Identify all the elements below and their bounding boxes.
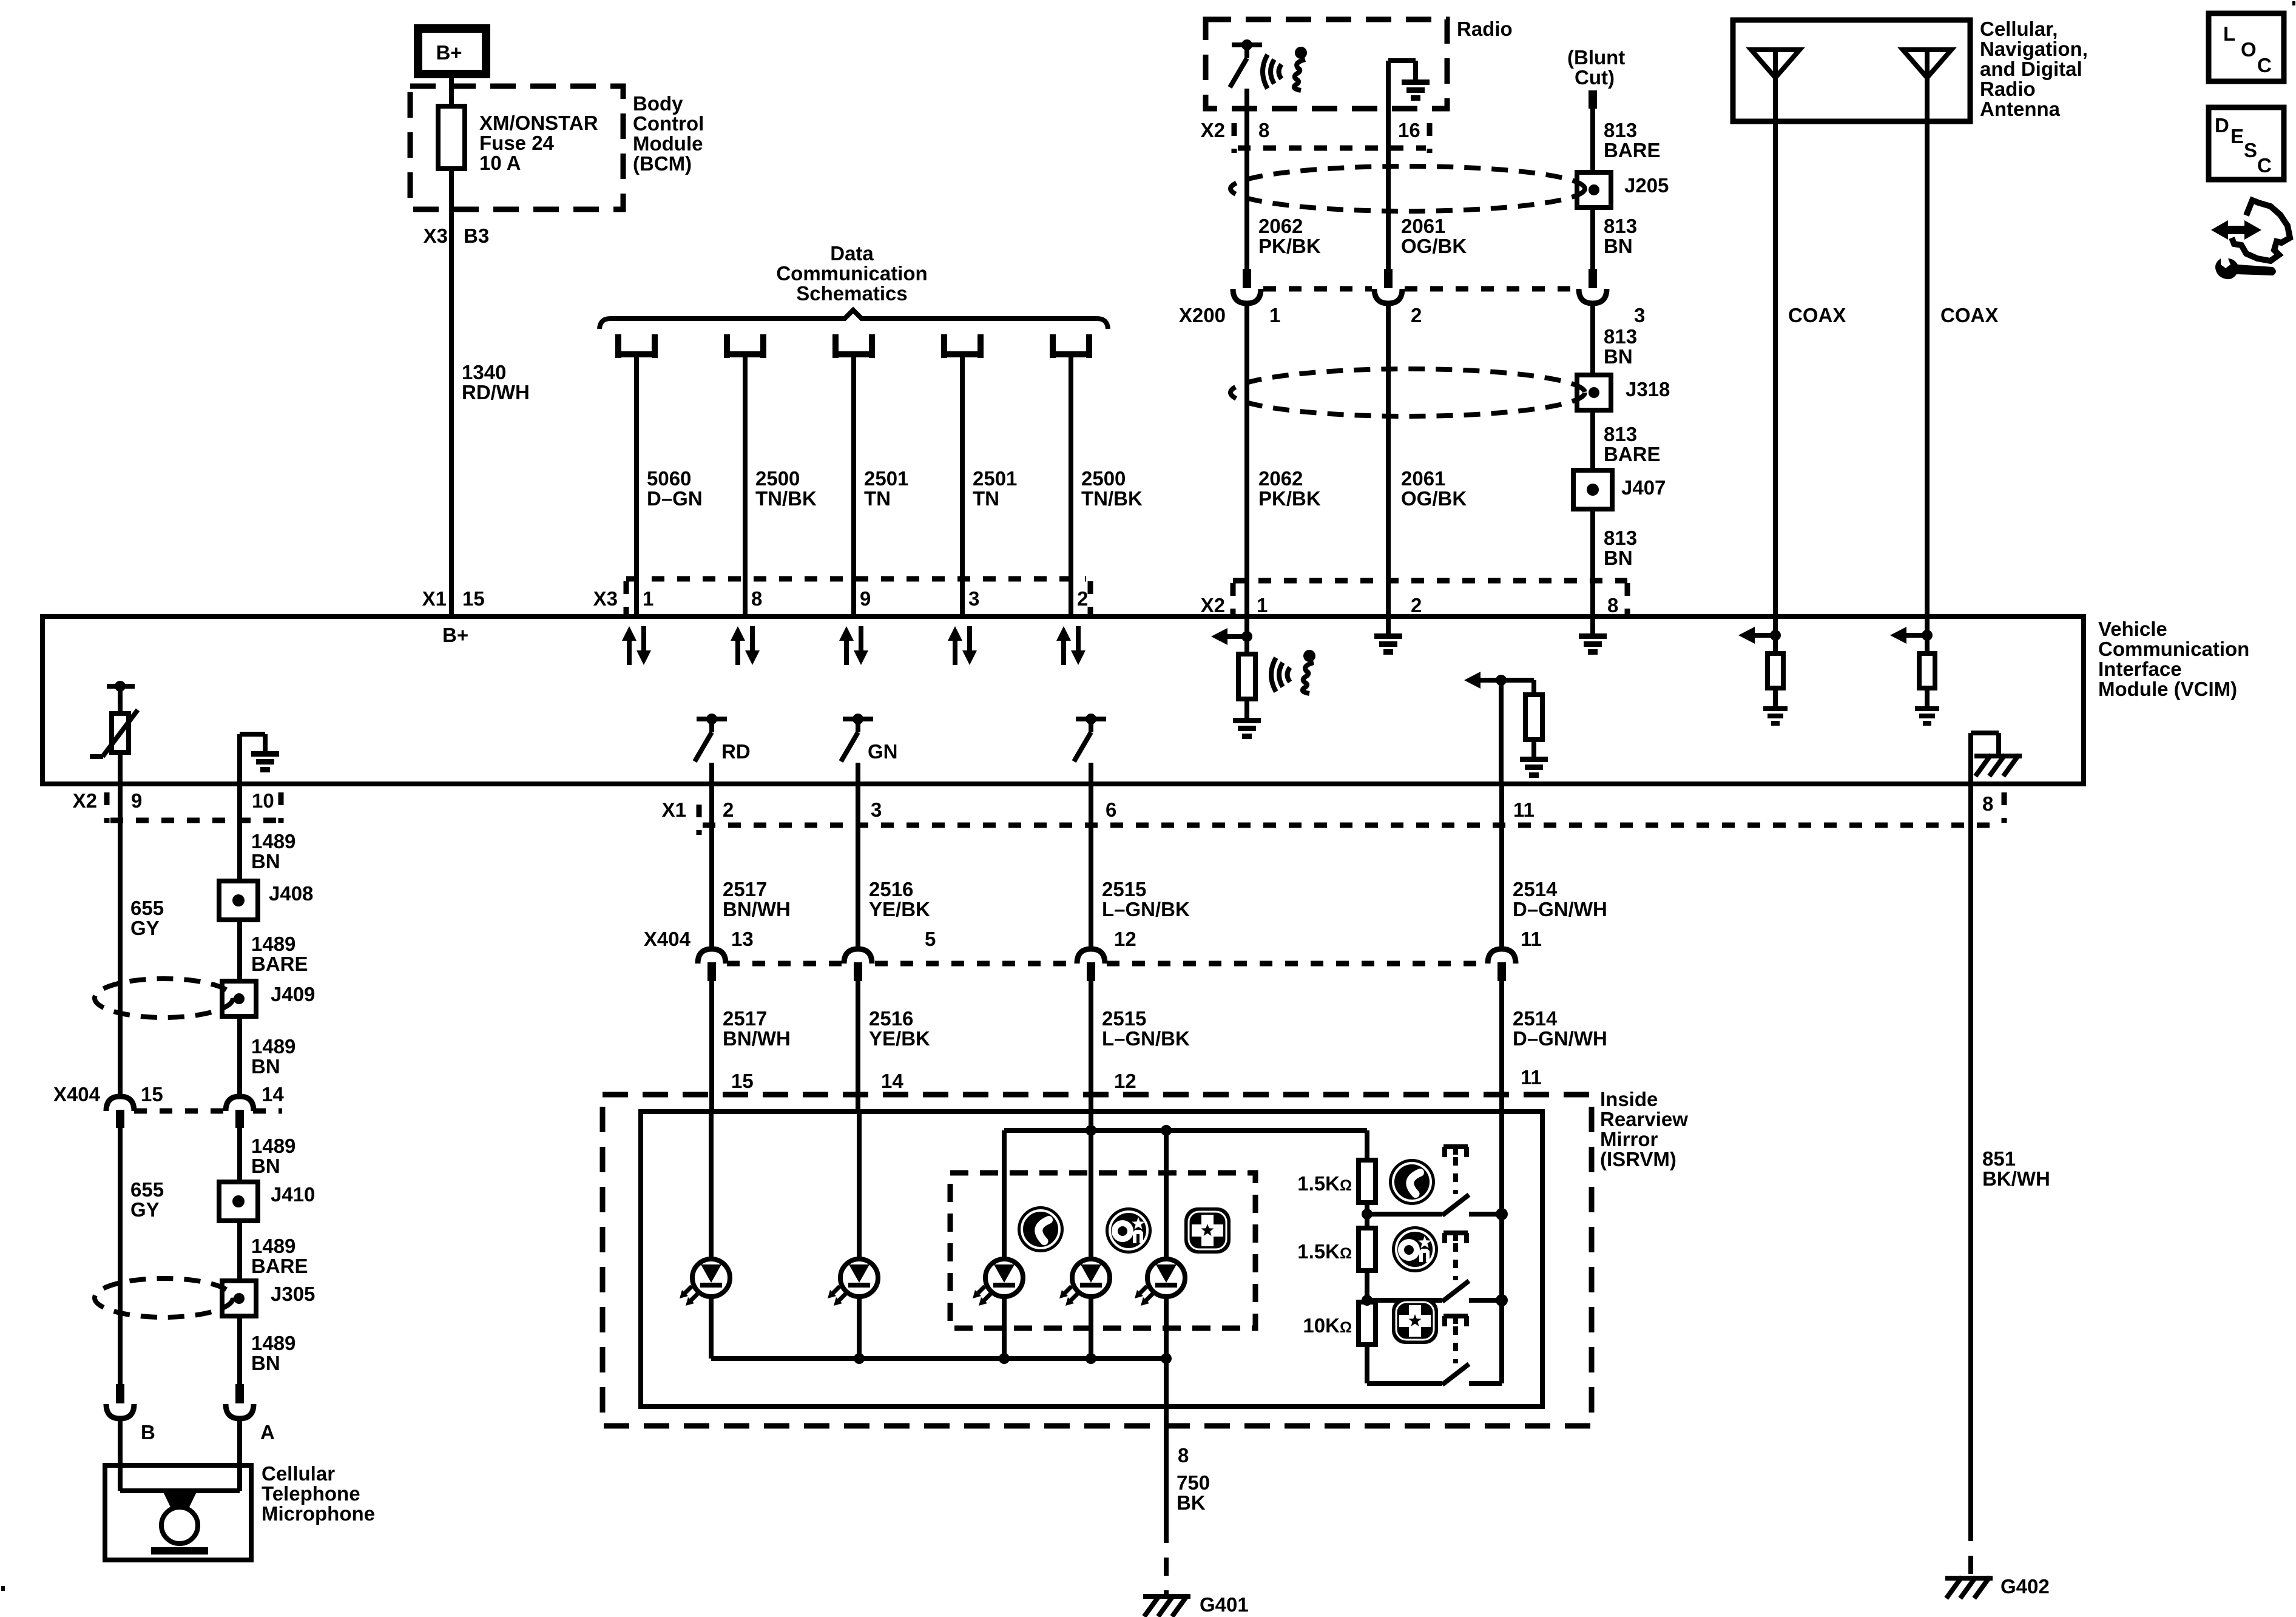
svg-text:Telephone: Telephone — [262, 1482, 360, 1505]
fuse XM/ONSTAR Fuse 24 10A — [438, 106, 598, 174]
LED 2 — [828, 1259, 878, 1306]
connector X404 mid labels — [644, 928, 1542, 964]
wire 655 GY (upper) — [120, 784, 164, 1097]
terminal data-comm 2 — [727, 334, 763, 358]
wire 2500 TN/BK — [745, 354, 817, 616]
svg-text:1489: 1489 — [251, 1035, 295, 1058]
serial data arrows 5 — [1056, 626, 1086, 665]
svg-text:15: 15 — [141, 1083, 163, 1106]
connector X1 bottom labels — [662, 792, 2004, 835]
VCIM coax termination x2926 — [1738, 619, 1788, 726]
Cellular Telephone Microphone box — [105, 1465, 251, 1560]
svg-text:J409: J409 — [271, 983, 315, 1005]
svg-text:RD: RD — [721, 740, 751, 763]
terminal data-comm 5 — [1053, 334, 1089, 358]
svg-text:813: 813 — [1604, 215, 1637, 237]
wire led to bus — [857, 1297, 862, 1359]
svg-text:11: 11 — [1513, 798, 1535, 821]
connector arc (X200) — [1579, 289, 1607, 303]
svg-text:L–GN/BK: L–GN/BK — [1102, 1027, 1190, 1050]
svg-text:X3: X3 — [424, 224, 448, 247]
wire led to bus — [709, 1297, 714, 1359]
wire 813 BN (X200-3 down) — [1593, 303, 1637, 376]
svg-text:2516: 2516 — [869, 1007, 913, 1030]
svg-text:813: 813 — [1604, 119, 1637, 141]
svg-text:J410: J410 — [271, 1183, 315, 1206]
svg-text:and Digital: and Digital — [1980, 58, 2082, 80]
antenna 1 — [1751, 50, 1800, 121]
twisted pair ellipse (upper) — [1231, 166, 1585, 211]
ISRVM pin labels — [731, 1066, 1542, 1092]
svg-text:3: 3 — [1634, 304, 1645, 326]
Radio dashed box — [1206, 19, 1447, 109]
serial data arrows 1 — [622, 626, 651, 665]
svg-text:851: 851 — [1982, 1147, 2016, 1170]
switch emergency — [1367, 1316, 1502, 1385]
twisted pair ellipse left upper — [95, 979, 233, 1018]
svg-text:RD/WH: RD/WH — [462, 381, 530, 403]
svg-text:Control: Control — [633, 112, 704, 135]
svg-text:2517: 2517 — [723, 878, 767, 900]
svg-text:13: 13 — [731, 928, 754, 950]
wire 1489 BN (below X404-14) — [240, 1128, 295, 1181]
wire 813 BN (to VCIM X2-8) — [1593, 509, 1637, 616]
wire 2516 YE/BK lower — [858, 981, 930, 1113]
pin X3 B3 labels — [424, 224, 490, 247]
label Cellular Telephone Microphone — [262, 1462, 375, 1525]
LED 1 (phone green) — [680, 1259, 730, 1306]
svg-text:1: 1 — [1257, 594, 1268, 616]
svg-text:S: S — [2244, 139, 2257, 161]
svg-text:2500: 2500 — [1081, 467, 1126, 490]
svg-text:6: 6 — [1106, 798, 1116, 821]
svg-text:2514: 2514 — [1513, 878, 1558, 900]
svg-text:1489: 1489 — [251, 933, 295, 955]
svg-text:BN: BN — [251, 1055, 280, 1078]
blunt cut wire 813 BARE — [1589, 90, 1661, 172]
svg-text:J407: J407 — [1621, 476, 1666, 499]
wire 1489 BN (pin10) — [240, 784, 295, 881]
svg-text:2061: 2061 — [1401, 467, 1445, 490]
VCIM speak icon — [1271, 650, 1315, 694]
wire 851 BK/WH — [1971, 784, 2050, 1523]
svg-text:2500: 2500 — [755, 467, 800, 490]
connector pin A (mic) — [226, 1384, 275, 1465]
svg-text:X2: X2 — [1201, 119, 1225, 141]
svg-text:O: O — [2241, 38, 2257, 61]
connector X2 bottom-left labels — [73, 789, 281, 823]
svg-text:BN: BN — [1604, 547, 1633, 569]
LED 4 (onstar) — [1059, 1259, 1110, 1306]
svg-text:OG/BK: OG/BK — [1401, 235, 1467, 257]
svg-text:655: 655 — [130, 897, 164, 919]
icon cross big — [1392, 1298, 1438, 1344]
svg-text:OG/BK: OG/BK — [1401, 487, 1467, 510]
VCIM ground below radio pin 2 — [1374, 619, 1402, 655]
svg-text:2062: 2062 — [1258, 215, 1303, 237]
wire 2517 BN/WH upper — [712, 784, 791, 950]
VCIM chassis ground (pin 8 right) — [1971, 733, 2019, 784]
svg-text:TN/BK: TN/BK — [755, 487, 817, 510]
svg-text:5060: 5060 — [647, 467, 691, 490]
connector pin stub (X200) — [1243, 269, 1251, 288]
svg-text:Mirror: Mirror — [1600, 1128, 1658, 1150]
wire 2062 PK/BK (upper) — [1247, 89, 1321, 270]
wire 2516 YE/BK upper — [858, 784, 930, 950]
svg-text:1489: 1489 — [251, 1235, 295, 1257]
svg-text:2: 2 — [1411, 304, 1422, 326]
svg-text:BARE: BARE — [251, 1255, 308, 1277]
blunt cut label — [1567, 46, 1625, 89]
splice J305 — [222, 1281, 315, 1316]
icon phone big — [1389, 1159, 1435, 1205]
svg-text:COAX: COAX — [1788, 304, 1846, 326]
svg-text:Antenna: Antenna — [1980, 98, 2061, 120]
resistor 1.5K (phone) — [1297, 1160, 1376, 1214]
twisted pair ellipse (lower) — [1231, 369, 1585, 416]
svg-text:D–GN: D–GN — [647, 487, 703, 510]
connector pin B (mic) — [106, 1384, 155, 1465]
svg-text:BK: BK — [1177, 1491, 1206, 1514]
serial data arrows 3 — [839, 626, 868, 665]
svg-text:J305: J305 — [271, 1283, 315, 1305]
svg-text:813: 813 — [1604, 527, 1637, 549]
connector X404 left labels — [53, 1083, 284, 1111]
splice J407 — [1573, 470, 1666, 509]
connector X404 arc x1798 — [1077, 949, 1105, 981]
VCIM contact (pin 6) — [1074, 714, 1106, 784]
svg-text:XM/ONSTAR: XM/ONSTAR — [479, 112, 598, 134]
svg-text:(BCM): (BCM) — [633, 152, 692, 175]
svg-text:12: 12 — [1114, 928, 1136, 950]
svg-text:BN: BN — [251, 1352, 280, 1374]
svg-text:8: 8 — [1178, 1444, 1189, 1467]
icon onstar small — [1106, 1207, 1152, 1254]
svg-text:TN: TN — [864, 487, 891, 510]
svg-text:Data: Data — [830, 242, 874, 265]
svg-text:B3: B3 — [464, 224, 489, 247]
radio mic contact symbol — [1230, 39, 1262, 87]
svg-text:813: 813 — [1604, 325, 1637, 348]
splice J410 — [219, 1182, 315, 1221]
svg-text:Radio: Radio — [1457, 18, 1513, 40]
ground G402 — [1948, 1575, 2050, 1598]
splice J408 — [219, 881, 313, 920]
svg-text:BN/WH: BN/WH — [723, 1027, 791, 1050]
antenna box — [1733, 20, 1970, 121]
wire 2061 OG/BK (lower) — [1388, 303, 1467, 616]
wire to LED 2 — [857, 1113, 862, 1259]
svg-text:BARE: BARE — [1604, 443, 1661, 465]
wire 2062 PK/BK (lower) — [1247, 303, 1321, 616]
coax wire 1 — [1775, 121, 1846, 616]
connector X3 dashed row — [593, 579, 1090, 615]
terminal data-comm 1 — [618, 334, 655, 358]
svg-text:TN/BK: TN/BK — [1081, 487, 1143, 510]
svg-text:J205: J205 — [1624, 174, 1669, 197]
svg-text:8: 8 — [1607, 594, 1618, 616]
svg-text:Cellular,: Cellular, — [1980, 18, 2058, 40]
svg-text:15: 15 — [731, 1070, 754, 1092]
connector X404 left arc x395 — [226, 1096, 254, 1128]
svg-text:BN: BN — [1604, 345, 1633, 368]
wire 1489 BN (to mic A) — [240, 1316, 295, 1384]
svg-text:J408: J408 — [269, 882, 313, 905]
label Body Control Module (BCM) — [633, 92, 704, 175]
icon phone small — [1018, 1206, 1064, 1252]
svg-text:3: 3 — [968, 587, 979, 610]
svg-text:2: 2 — [1077, 587, 1088, 610]
wire B+ to fuse — [449, 74, 454, 108]
VCIM internal varistor (mic bias) — [90, 681, 138, 784]
svg-text:X404: X404 — [644, 928, 691, 950]
splice J318 — [1577, 375, 1670, 410]
svg-text:PK/BK: PK/BK — [1258, 487, 1321, 510]
svg-text:1340: 1340 — [462, 361, 506, 383]
LOC box — [2209, 13, 2284, 81]
svg-text:Communication: Communication — [2098, 638, 2249, 660]
wire 851 dashed to G402 — [1968, 1523, 1973, 1576]
antenna 2 — [1903, 50, 1951, 121]
svg-text:2: 2 — [723, 798, 734, 821]
svg-text:Communication: Communication — [776, 262, 927, 285]
VCIM contact GN — [841, 714, 898, 784]
svg-text:1: 1 — [643, 587, 653, 610]
svg-text:G401: G401 — [1200, 1593, 1249, 1616]
wire 2501 TN — [962, 354, 1017, 616]
VCIM box — [42, 616, 2084, 784]
svg-text:14: 14 — [262, 1083, 284, 1106]
wire 750 BK exit — [1166, 1359, 1210, 1525]
svg-text:YE/BK: YE/BK — [869, 1027, 930, 1050]
wire 2515 L&#8211;GN/BK upper — [1091, 784, 1190, 950]
wire 1340 RD/WH — [451, 169, 530, 616]
svg-text:Module: Module — [633, 132, 703, 155]
svg-text:8: 8 — [1258, 119, 1269, 141]
connector pin stub (X200) — [1589, 269, 1597, 288]
svg-text:Rearview: Rearview — [1600, 1108, 1688, 1130]
svg-text:B+: B+ — [436, 41, 462, 64]
svg-text:L–GN/BK: L–GN/BK — [1102, 898, 1190, 920]
wire 2500 TN/BK — [1071, 354, 1143, 616]
label Vehicle Communication Interface Module (VCIM) — [2098, 618, 2249, 700]
svg-text:D–GN/WH: D–GN/WH — [1513, 898, 1607, 920]
service icon (arrow hand wrench) — [2211, 200, 2290, 279]
svg-text:X2: X2 — [73, 789, 97, 812]
svg-text:12: 12 — [1114, 1070, 1136, 1092]
radio speak icon — [1263, 47, 1307, 90]
svg-text:GY: GY — [130, 1198, 160, 1221]
svg-text:BARE: BARE — [1604, 139, 1661, 161]
svg-text:C: C — [2257, 154, 2272, 177]
svg-text:2501: 2501 — [973, 467, 1017, 490]
svg-text:1489: 1489 — [251, 830, 295, 852]
inner dashed box around status LEDs — [950, 1173, 1255, 1328]
svg-text:Module (VCIM): Module (VCIM) — [2098, 678, 2237, 700]
label Inside Rearview Mirror (ISRVM) — [1600, 1088, 1688, 1170]
svg-text:TN: TN — [973, 487, 999, 510]
icon cross small — [1184, 1207, 1231, 1254]
VCIM pin 11 driver arrow and load — [1464, 672, 1548, 784]
svg-text:C: C — [2257, 54, 2272, 76]
wire 2501 TN — [854, 354, 908, 616]
svg-text:1489: 1489 — [251, 1135, 295, 1157]
svg-text:D–GN/WH: D–GN/WH — [1513, 1027, 1607, 1050]
serial data arrows 2 — [731, 626, 760, 665]
svg-text:Body: Body — [633, 92, 683, 115]
svg-text:Fuse 24: Fuse 24 — [479, 132, 555, 154]
connector X404 arc x1173 — [698, 949, 726, 981]
wire led to bus — [1089, 1297, 1093, 1359]
svg-text:2: 2 — [1411, 594, 1422, 616]
coax wire 2 — [1927, 121, 1998, 616]
svg-text:2515: 2515 — [1102, 878, 1146, 900]
svg-text:2514: 2514 — [1513, 1007, 1558, 1030]
connector X404 arc x1414 — [844, 949, 872, 981]
svg-text:10: 10 — [252, 789, 274, 812]
svg-text:8: 8 — [751, 587, 762, 610]
BCM dashed box — [410, 86, 623, 209]
wire 2514 D&#8211;GN/WH lower — [1502, 981, 1607, 1113]
svg-text:1489: 1489 — [251, 1332, 295, 1354]
svg-text:Navigation,: Navigation, — [1980, 38, 2088, 60]
ISRVM dashed box — [603, 1095, 1592, 1426]
icon onstar big — [1392, 1226, 1438, 1272]
svg-text:GN: GN — [868, 740, 898, 763]
VCIM coax termination x3176 — [1890, 619, 1939, 726]
DESC box — [2209, 107, 2284, 180]
svg-text:9: 9 — [860, 587, 871, 610]
resistor 10K (emergency) — [1303, 1302, 1376, 1383]
svg-text:10 A: 10 A — [479, 152, 521, 174]
ISRVM inner box — [641, 1112, 1542, 1406]
LED bottom bus — [711, 1353, 1172, 1364]
icon bus (top) — [1004, 1125, 1367, 1259]
wire 1489 BARE — [240, 920, 308, 981]
stray mark top right — [2292, 1, 2295, 5]
wire 5060 D&#8211;GN — [636, 354, 703, 616]
svg-text:BK/WH: BK/WH — [1982, 1167, 2050, 1190]
wire 1489 BN (to X404-14) — [240, 1016, 295, 1097]
wire led to bus — [1164, 1297, 1169, 1359]
svg-text:B: B — [141, 1421, 155, 1443]
VCIM ground below pin 8 (813) — [1579, 619, 1607, 655]
label Cellular Navigation and Digital Radio Antenna — [1980, 18, 2088, 120]
wire 1489 BARE lower — [240, 1221, 308, 1281]
svg-text:2501: 2501 — [864, 467, 908, 490]
radio ground (pin 16) — [1388, 61, 1430, 148]
wire 2517 BN/WH lower — [712, 981, 791, 1113]
svg-text:BN: BN — [251, 1155, 280, 1177]
connector X404 arc x2475 — [1488, 949, 1516, 981]
connector arc (X200) — [1233, 289, 1261, 303]
svg-text:11: 11 — [1521, 1066, 1542, 1089]
svg-text:X200: X200 — [1179, 304, 1226, 326]
svg-text:Inside: Inside — [1600, 1088, 1658, 1110]
VCIM mic input arrow and load — [1211, 619, 1261, 739]
splice J409 — [222, 981, 315, 1016]
svg-text:9: 9 — [131, 789, 142, 812]
svg-text:YE/BK: YE/BK — [869, 898, 930, 920]
svg-text:X3: X3 — [593, 587, 618, 610]
svg-text:16: 16 — [1398, 119, 1420, 141]
wire 750 BK dashed to G401 — [1164, 1525, 1169, 1595]
svg-text:X1: X1 — [662, 798, 686, 821]
wire led to bus — [1002, 1297, 1007, 1359]
svg-text:L: L — [2223, 22, 2235, 45]
terminal data-comm 3 — [836, 334, 872, 358]
svg-text:5: 5 — [925, 928, 936, 950]
power symbol B+ (battery feed) — [418, 29, 486, 74]
svg-text:COAX: COAX — [1940, 304, 1998, 326]
wire 813 BN (to X200-3) — [1593, 208, 1637, 270]
svg-text:3: 3 — [871, 798, 882, 821]
svg-text:Vehicle: Vehicle — [2098, 618, 2167, 640]
wire 2514 D&#8211;GN/WH upper — [1502, 784, 1607, 950]
terminal data-comm 4 — [944, 334, 981, 358]
svg-text:E: E — [2230, 125, 2244, 147]
label Data Communication Schematics — [776, 242, 927, 305]
connector X200 labels — [1179, 289, 1645, 326]
svg-text:14: 14 — [881, 1070, 903, 1092]
svg-text:PK/BK: PK/BK — [1258, 235, 1321, 257]
svg-text:Cut): Cut) — [1575, 66, 1615, 89]
svg-text:D: D — [2215, 114, 2229, 137]
serial data arrows 4 — [948, 626, 977, 665]
svg-text:Interface: Interface — [2098, 658, 2182, 680]
splice J205 — [1577, 172, 1669, 208]
svg-text:2517: 2517 — [723, 1007, 767, 1030]
wire 2061 OG/BK (upper) — [1388, 148, 1467, 270]
svg-text:2061: 2061 — [1401, 215, 1445, 237]
svg-text:750: 750 — [1177, 1471, 1210, 1494]
connector X2 (radio) labels — [1201, 119, 1430, 153]
svg-text:Radio: Radio — [1980, 78, 2036, 100]
svg-text:X2: X2 — [1201, 594, 1225, 616]
wire 11 into switches — [1499, 1113, 1504, 1383]
svg-text:J318: J318 — [1626, 378, 1670, 400]
svg-text:G402: G402 — [2001, 1575, 2050, 1598]
svg-text:BN: BN — [251, 850, 280, 873]
VCIM contact RD — [695, 714, 751, 784]
twisted pair ellipse left lower — [95, 1278, 233, 1317]
wire 655 GY (lower) — [120, 1128, 164, 1384]
svg-text:X1: X1 — [422, 587, 447, 610]
svg-text:B+: B+ — [442, 624, 468, 646]
wire 2515 L&#8211;GN/BK lower — [1091, 981, 1190, 1113]
svg-text:BN/WH: BN/WH — [723, 898, 791, 920]
svg-text:Schematics: Schematics — [796, 282, 907, 305]
wire 12 through bus to LED 4 — [1089, 1113, 1093, 1259]
stray mark bottom left — [1, 1586, 5, 1591]
wire 813 BARE — [1593, 410, 1661, 470]
svg-text:(ISRVM): (ISRVM) — [1600, 1148, 1676, 1170]
resistor 1.5K (onstar) — [1297, 1214, 1376, 1300]
svg-text:Microphone: Microphone — [262, 1502, 375, 1525]
svg-text:A: A — [260, 1421, 275, 1443]
switch onstar — [1362, 1233, 1508, 1306]
svg-text:Cellular: Cellular — [262, 1462, 335, 1485]
svg-text:(Blunt: (Blunt — [1567, 46, 1625, 69]
pin X1 15 labels — [422, 587, 485, 610]
connector X404 left arc x198 — [106, 1096, 134, 1128]
svg-text:813: 813 — [1604, 423, 1637, 445]
brace — [599, 310, 1108, 329]
svg-text:15: 15 — [462, 587, 485, 610]
connector pin stub (X200) — [1384, 269, 1393, 288]
LED 3 (phone) — [973, 1259, 1023, 1306]
svg-text:BN: BN — [1604, 235, 1633, 257]
